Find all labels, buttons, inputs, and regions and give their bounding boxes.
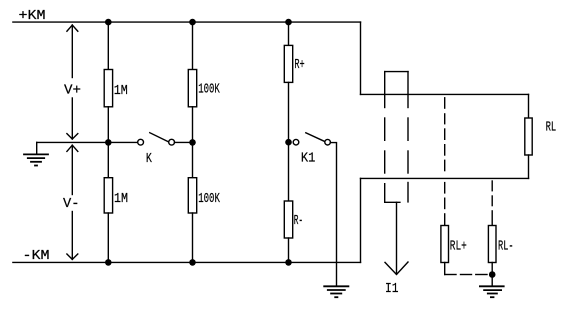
resistor R+ <box>284 45 292 82</box>
dashed barrier box bottom edge <box>385 201 400 203</box>
wire dashed link RL+ to RL- bottom <box>445 274 487 276</box>
wire middle-left rail <box>37 141 138 143</box>
svg-text:1M: 1M <box>114 191 128 207</box>
wire RL+ dashed sense lead <box>444 98 446 226</box>
node I (bottom rail / R- column) <box>285 259 292 266</box>
wire 100K top lead <box>192 22 194 69</box>
resistor R- <box>284 201 292 238</box>
wire bottom rail <box>13 261 361 263</box>
wire K1 right contact to ground drop <box>330 143 336 287</box>
label I1 <box>385 281 399 297</box>
label V+ <box>64 83 81 99</box>
wire lower right rail <box>361 177 529 179</box>
wire RL- bottom stub <box>491 263 493 287</box>
switch K left contact circle <box>138 139 144 145</box>
label V- <box>63 196 80 212</box>
wire bottom rail riser to lower-right rail <box>360 178 362 262</box>
label K <box>146 151 152 167</box>
node E (middle rail / 100K column) <box>189 139 196 146</box>
resistor 1M (lower left) <box>104 178 112 213</box>
switch K1 left contact circle <box>293 139 299 145</box>
resistor RL- <box>488 226 496 263</box>
node B (top rail / 100K column) <box>189 19 196 26</box>
label 1M (lower) <box>114 191 128 207</box>
wire 100K bottom lead <box>192 107 194 143</box>
resistor 1M (upper left) <box>104 70 112 107</box>
resistor 100K (upper) <box>188 70 196 107</box>
label R+ <box>294 57 304 73</box>
wire top rail <box>13 21 361 23</box>
dashed barrier box right edge <box>407 72 409 202</box>
wire RL top lead <box>528 94 530 118</box>
wire R+ bottom lead <box>288 82 290 142</box>
svg-text:100K: 100K <box>198 82 220 98</box>
arrow I1 current arrow <box>385 202 408 274</box>
node D (middle rail / 1M column) <box>105 139 112 146</box>
svg-text:1M: 1M <box>114 83 128 99</box>
resistor 100K (lower) <box>188 178 196 213</box>
wire 1M(lower) bottom lead <box>107 213 109 262</box>
wire RL+ bottom stub <box>444 263 446 275</box>
svg-text:RL-: RL- <box>498 239 514 255</box>
node A (top rail / 1M column) <box>105 19 112 26</box>
arrow V- dimension arrow <box>67 145 78 259</box>
node F (K1 junction) <box>285 139 292 146</box>
wire 100K(lower) top lead <box>192 142 194 177</box>
label K1 <box>301 151 316 167</box>
svg-text:RL+: RL+ <box>450 239 467 255</box>
switch K lever <box>150 133 168 142</box>
svg-text:R-: R- <box>294 213 303 229</box>
wire 1M bottom lead <box>107 107 109 143</box>
svg-text:K: K <box>146 151 152 167</box>
label RL+ <box>450 239 467 255</box>
node J (RL+/RL- ground junction) <box>489 271 496 278</box>
ground (middle, below K1) <box>324 286 348 297</box>
label +KM <box>19 8 46 24</box>
resistor RL <box>525 118 532 155</box>
wire K right contact to 100K column <box>175 141 193 143</box>
wire R- bottom lead <box>288 238 290 262</box>
ground (right, below RL-) <box>480 286 504 297</box>
wire top-right vertical drop <box>360 22 362 94</box>
dashed barrier box top edge <box>385 71 408 73</box>
wire 100K(lower) bottom lead <box>192 213 194 262</box>
ground (left) <box>24 154 48 165</box>
label R- <box>294 213 303 229</box>
label 1M (upper) <box>114 83 128 99</box>
wire 1M top lead <box>107 22 109 69</box>
svg-text:I1: I1 <box>385 281 399 297</box>
node C (top rail / R+ column) <box>285 19 292 26</box>
switch K1 lever <box>306 133 325 142</box>
wire R+ top lead <box>288 22 290 45</box>
label RL <box>546 120 557 136</box>
wire ground stub (left) <box>36 142 38 153</box>
wire RL- dashed sense lead <box>491 181 493 226</box>
svg-text:V+: V+ <box>64 83 81 99</box>
svg-text:K1: K1 <box>301 151 316 167</box>
svg-text:RL: RL <box>546 120 557 136</box>
label 100K (upper) <box>198 82 220 98</box>
wire RL bottom lead <box>528 155 530 178</box>
wire upper right rail <box>361 93 529 95</box>
arrow V+ dimension arrow <box>67 25 78 139</box>
label 100K (lower) <box>198 191 220 207</box>
switch K1 right contact circle <box>325 139 331 145</box>
node H (bottom rail / 100K column) <box>189 259 196 266</box>
dashed barrier box left edge <box>384 72 386 203</box>
svg-text:R+: R+ <box>294 57 304 73</box>
resistor RL+ <box>441 226 449 263</box>
node G (bottom rail / 1M column) <box>105 259 112 266</box>
svg-text:V-: V- <box>63 196 80 212</box>
svg-text:-KM: -KM <box>23 248 50 264</box>
label -KM <box>23 248 50 264</box>
wire 1M(lower) top lead <box>107 142 109 177</box>
svg-text:100K: 100K <box>198 191 220 207</box>
label RL- <box>498 239 514 255</box>
wire R- top lead <box>288 142 290 201</box>
switch K right contact circle <box>169 139 175 145</box>
